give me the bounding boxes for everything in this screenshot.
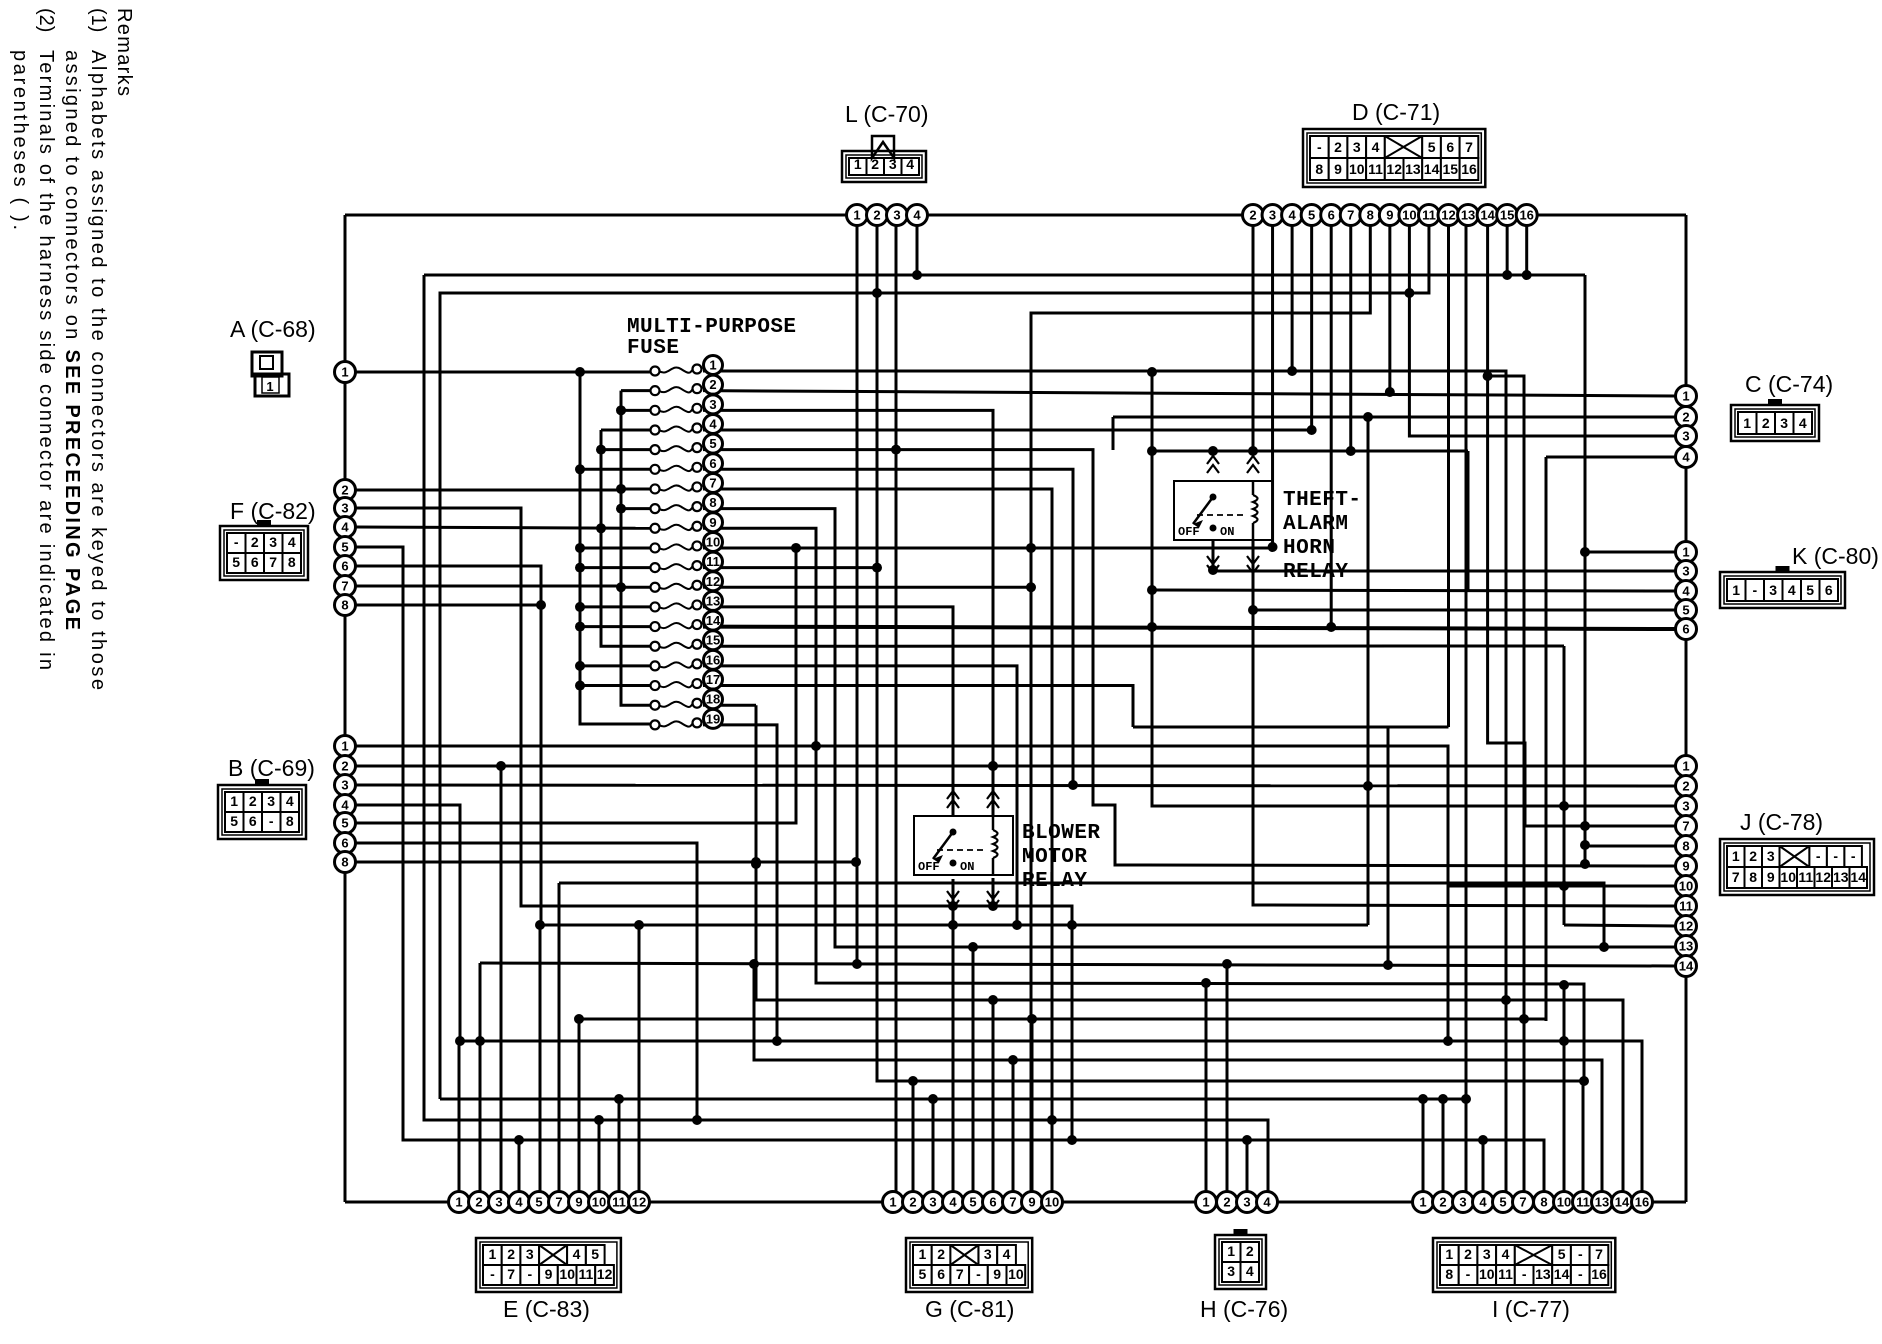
svg-text:8: 8: [1367, 208, 1374, 223]
wire D4 drop: [1291, 225, 1294, 371]
svg-text:Remarks: Remarks: [113, 8, 135, 96]
svg-text:14: 14: [706, 613, 721, 628]
pin C4: [1676, 447, 1697, 468]
wire D8 to G9 trunk: [1031, 225, 1370, 1202]
svg-text:17: 17: [706, 672, 720, 687]
pin J7: [1676, 816, 1697, 837]
svg-text:2: 2: [475, 1195, 482, 1210]
svg-text:13: 13: [1461, 208, 1475, 223]
wire F3 trunk to mega line: [356, 508, 1072, 925]
svg-text:1: 1: [709, 358, 716, 373]
connector H box: [1215, 1235, 1266, 1289]
svg-text:4: 4: [1288, 208, 1296, 223]
svg-text:1: 1: [455, 1195, 462, 1210]
svg-text:9: 9: [1682, 859, 1689, 874]
wire D10 drop to C3: [1409, 225, 1676, 436]
svg-text:5: 5: [341, 540, 348, 555]
svg-text:7: 7: [1347, 208, 1354, 223]
wire I2 riser: [1442, 1099, 1445, 1202]
svg-text:2: 2: [1334, 139, 1342, 155]
wire fuse9 out to H1 and beyond: [703, 528, 1584, 1081]
wire D5 drop: [1310, 225, 1313, 430]
svg-text:4: 4: [1682, 450, 1690, 465]
svg-text:1: 1: [489, 1246, 497, 1262]
pin C2: [1676, 407, 1697, 428]
pin D10: [1399, 205, 1420, 226]
wire L1 drop: [856, 225, 859, 964]
svg-text:9: 9: [993, 1266, 1001, 1282]
svg-text:-: -: [1816, 848, 1821, 864]
pin K3: [1676, 561, 1697, 582]
svg-text:5: 5: [969, 1195, 976, 1210]
svg-text:7: 7: [1682, 819, 1689, 834]
pin D14: [1477, 205, 1498, 226]
svg-text:11: 11: [706, 554, 720, 569]
svg-text:parentheses ( ).: parentheses ( ).: [9, 50, 31, 230]
wire G9 riser lower: [1031, 1019, 1034, 1202]
svg-text:RELAY: RELAY: [1283, 561, 1348, 584]
svg-text:BLOWER: BLOWER: [1022, 822, 1100, 845]
wire E7 riser: [558, 883, 561, 1202]
pin L2: [867, 205, 888, 226]
svg-text:2: 2: [341, 483, 348, 498]
pin B5: [335, 813, 356, 834]
text: remarks note (rotated): [9, 8, 135, 690]
svg-text:8: 8: [286, 813, 294, 829]
wire fuse11 out: [703, 566, 877, 569]
svg-text:Terminals of the harness side: Terminals of the harness side connector …: [35, 50, 57, 670]
svg-text:10: 10: [706, 534, 720, 549]
pin K5: [1676, 600, 1697, 621]
svg-text:6: 6: [937, 1266, 945, 1282]
fuse 8: [651, 504, 660, 513]
junction dots: [575, 367, 585, 377]
svg-text:8: 8: [1749, 869, 1757, 885]
svg-text:3: 3: [495, 1195, 502, 1210]
wire L4 drop: [916, 225, 919, 275]
svg-text:3: 3: [1682, 429, 1689, 444]
pin I11: [1573, 1192, 1594, 1213]
svg-text:OFF: OFF: [918, 860, 940, 874]
svg-text:3: 3: [1767, 848, 1775, 864]
wire stub fuse 10 input: [580, 546, 655, 549]
svg-text:2: 2: [251, 534, 259, 550]
svg-text:ON: ON: [1220, 525, 1234, 539]
svg-text:4: 4: [906, 156, 914, 172]
wire D16 drop: [1525, 225, 1528, 273]
wire L2 drop to G2/I11 trunk: [877, 225, 1583, 1202]
svg-text:1: 1: [1732, 848, 1740, 864]
wire fuse10 out: [703, 546, 1273, 549]
pin C1: [1676, 386, 1697, 407]
svg-text:8: 8: [288, 554, 296, 570]
pin J10: [1676, 876, 1697, 897]
wire F6 to J12 trunk: [356, 566, 1368, 925]
wire B4 to E1 / I16 trunk: [356, 805, 1642, 1202]
pin I10: [1554, 1192, 1575, 1213]
svg-text:Alphabets assigned to the conn: Alphabets assigned to the connectors are…: [87, 50, 109, 690]
pin J8: [1676, 836, 1697, 857]
svg-text:3: 3: [893, 208, 900, 223]
relay switch arm: [950, 829, 957, 836]
svg-text:MOTOR: MOTOR: [1022, 846, 1087, 869]
svg-text:6: 6: [1682, 622, 1689, 637]
wire I3 riser: [1465, 1099, 1468, 1202]
wire J14 line y=964: [480, 963, 1676, 966]
wire D15 drop: [1506, 225, 1509, 275]
svg-text:2: 2: [1246, 1243, 1254, 1259]
svg-text:1: 1: [341, 365, 348, 380]
wire fuse18 out: [703, 704, 756, 707]
svg-text:5: 5: [1428, 139, 1436, 155]
wire E12 riser: [638, 925, 641, 1202]
svg-text:(2): (2): [35, 8, 57, 32]
wire x=1585 column: [1584, 275, 1587, 866]
pin G2: [903, 1192, 924, 1213]
svg-text:10: 10: [1479, 1266, 1495, 1282]
svg-text:OFF: OFF: [1178, 525, 1200, 539]
fuse 18: [651, 701, 660, 710]
wire fuse3 out to blower coil: [703, 410, 993, 815]
wire A1 to fuse 1: [356, 371, 655, 374]
svg-text:13: 13: [1405, 161, 1421, 177]
svg-text:3: 3: [929, 1195, 936, 1210]
svg-text:5: 5: [535, 1195, 542, 1210]
svg-text:2: 2: [341, 759, 348, 774]
pin B1: [335, 736, 356, 757]
connector K box: [1720, 572, 1845, 608]
svg-text:7: 7: [709, 475, 716, 490]
fuse 4: [651, 425, 660, 434]
svg-text:5: 5: [1682, 603, 1689, 618]
wire G5 riser: [972, 947, 975, 1202]
pin H3: [1237, 1192, 1258, 1213]
svg-text:3: 3: [984, 1246, 992, 1262]
pin D7: [1340, 205, 1361, 226]
svg-text:12: 12: [597, 1266, 613, 1282]
wire stub fuse 5 input: [601, 448, 655, 451]
svg-text:D (C-71): D (C-71): [1352, 99, 1440, 125]
svg-text:4: 4: [1479, 1195, 1487, 1210]
svg-text:15: 15: [1443, 161, 1459, 177]
svg-text:1: 1: [1682, 389, 1689, 404]
svg-text:12: 12: [632, 1195, 646, 1210]
pin E5: [529, 1192, 550, 1213]
wire: main harness frame right edge: [1685, 215, 1688, 1202]
svg-text:2: 2: [1749, 848, 1757, 864]
wire fuse14 out to K6: [703, 627, 1676, 629]
svg-text:7: 7: [341, 579, 348, 594]
wire fuse16 out: [703, 666, 1017, 925]
pin K1: [1676, 542, 1697, 563]
connector C box: [1731, 405, 1819, 441]
wire I7 branch from D14: [1488, 376, 1524, 1202]
wire I3 line y=1099: [440, 1098, 1466, 1101]
svg-text:8: 8: [1445, 1266, 1453, 1282]
svg-text:11: 11: [612, 1195, 626, 1210]
pin A1: [335, 362, 356, 383]
svg-text:1: 1: [854, 156, 862, 172]
svg-text:2: 2: [1439, 1195, 1446, 1210]
wire theft switch common to K3: [1213, 540, 1676, 571]
svg-text:4: 4: [515, 1195, 523, 1210]
svg-text:E (C-83): E (C-83): [503, 1296, 590, 1322]
svg-text:4: 4: [1799, 415, 1807, 431]
svg-text:10: 10: [592, 1195, 606, 1210]
connector E box: [476, 1238, 621, 1292]
wire G3 riser: [932, 1099, 935, 1202]
svg-text:ON: ON: [960, 860, 974, 874]
pin L3: [887, 205, 908, 226]
wire: main harness frame top edge: [345, 214, 1686, 217]
fuse 1: [651, 367, 660, 376]
pin B6: [335, 833, 356, 854]
wire theft coil branch to J11: [1253, 610, 1676, 906]
svg-text:9: 9: [545, 1266, 553, 1282]
svg-text:13: 13: [1535, 1266, 1551, 1282]
svg-text:7: 7: [269, 554, 277, 570]
svg-text:2: 2: [873, 208, 880, 223]
svg-text:3: 3: [1682, 564, 1689, 579]
svg-text:5: 5: [1806, 582, 1814, 598]
svg-text:18: 18: [706, 692, 720, 707]
wire stub fuse 3 input: [621, 409, 655, 412]
wire D7 drop: [1349, 225, 1352, 451]
svg-text:1: 1: [1743, 415, 1751, 431]
svg-text:2: 2: [909, 1195, 916, 1210]
wire I1 riser: [1422, 1099, 1425, 1202]
pin E2: [469, 1192, 490, 1213]
wire bus x=601 vertical: [601, 430, 655, 646]
svg-text:10: 10: [1045, 1195, 1059, 1210]
wire x=424 drop to H4 line: [424, 275, 1268, 1202]
svg-text:THEFT-: THEFT-: [1283, 489, 1361, 512]
pin I1: [1413, 1192, 1434, 1213]
svg-text:12: 12: [1815, 869, 1831, 885]
svg-text:1: 1: [1445, 1246, 1453, 1262]
wire x=1113 stub: [1112, 417, 1115, 450]
fuse 13: [651, 602, 660, 611]
wire I11 riser: [1582, 1081, 1585, 1202]
pin D6: [1321, 205, 1342, 226]
wire E1 riser: [458, 1041, 461, 1202]
wire J12 stub: [1564, 925, 1676, 926]
pin F6: [335, 556, 356, 577]
svg-text:4: 4: [341, 520, 349, 535]
svg-text:A (C-68): A (C-68): [230, 316, 316, 342]
svg-text:3: 3: [341, 778, 348, 793]
svg-text:14: 14: [1554, 1266, 1570, 1282]
wire B1 column continues: [1447, 886, 1450, 1041]
pin J13: [1676, 936, 1697, 957]
wire G2 riser: [912, 1081, 915, 1202]
svg-text:10: 10: [1557, 1195, 1571, 1210]
pin E1: [449, 1192, 470, 1213]
svg-text:4: 4: [1682, 584, 1690, 599]
wire E5 riser: [539, 925, 542, 1202]
svg-text:-: -: [269, 813, 274, 829]
pin B2: [335, 756, 356, 777]
relay terminal arrows: [947, 800, 959, 808]
svg-text:16: 16: [1635, 1195, 1649, 1210]
svg-text:14: 14: [1480, 208, 1495, 223]
svg-text:6: 6: [1328, 208, 1335, 223]
svg-text:10: 10: [559, 1266, 575, 1282]
pin F7: [335, 576, 356, 597]
svg-text:12: 12: [706, 574, 720, 589]
svg-text:7: 7: [956, 1266, 964, 1282]
wire B3 to J2: [356, 785, 1676, 786]
svg-text:4: 4: [1788, 582, 1796, 598]
svg-text:9: 9: [1028, 1195, 1035, 1210]
wire B5 up to fuse10 line: [356, 548, 796, 823]
pin H1: [1196, 1192, 1217, 1213]
svg-text:2: 2: [937, 1246, 945, 1262]
svg-text:FUSE: FUSE: [627, 337, 679, 360]
wire E11 riser: [618, 1099, 621, 1202]
svg-text:4: 4: [709, 416, 717, 431]
svg-text:-: -: [1317, 139, 1322, 155]
wire fuse7 out to G10: [703, 489, 1052, 1202]
wire stub fuse 13 input: [580, 605, 655, 608]
pin D9: [1379, 205, 1400, 226]
connector F box: [220, 526, 308, 580]
svg-text:12: 12: [1679, 919, 1693, 934]
pin H4: [1257, 1192, 1278, 1213]
svg-text:1: 1: [341, 739, 348, 754]
svg-text:-: -: [1578, 1266, 1583, 1282]
svg-text:-: -: [1752, 582, 1757, 598]
svg-text:-: -: [976, 1266, 981, 1282]
svg-text:3: 3: [1483, 1246, 1491, 1262]
wire E9 net y=1019: [579, 1018, 1546, 1021]
svg-text:5: 5: [1558, 1246, 1566, 1262]
wire F5 to I8 trunk: [356, 547, 1544, 1202]
wire G6 riser: [992, 1000, 995, 1202]
wire E9 riser: [578, 1019, 581, 1202]
wire D11 trunk y=293: [440, 225, 1429, 1099]
svg-text:-: -: [490, 1266, 495, 1282]
svg-text:-: -: [1851, 848, 1856, 864]
svg-text:5: 5: [919, 1266, 927, 1282]
pin B4: [335, 795, 356, 816]
svg-text:L (C-70): L (C-70): [845, 101, 929, 127]
svg-text:3: 3: [341, 501, 348, 516]
svg-text:8: 8: [1682, 839, 1689, 854]
svg-text:14: 14: [1679, 959, 1694, 974]
svg-text:7: 7: [1009, 1195, 1016, 1210]
pin I14: [1612, 1192, 1633, 1213]
pin H2: [1217, 1192, 1238, 1213]
pin B3: [335, 775, 356, 796]
svg-text:8: 8: [709, 495, 716, 510]
pin D2: [1243, 205, 1264, 226]
svg-text:-: -: [1578, 1246, 1583, 1262]
pin I16: [1632, 1192, 1653, 1213]
pin F2: [335, 480, 356, 501]
svg-text:1: 1: [1227, 1243, 1235, 1259]
relay coil: [1253, 495, 1258, 523]
wire D3 drop: [1271, 225, 1274, 547]
wire D14 staircase to J7 junction: [1488, 225, 1585, 826]
svg-text:9: 9: [709, 515, 716, 530]
wire D6 drop: [1330, 225, 1333, 627]
connector I box: [1433, 1238, 1615, 1292]
svg-text:5: 5: [709, 436, 716, 451]
pin D12: [1438, 205, 1459, 226]
fuse 12: [651, 583, 660, 592]
svg-text:6: 6: [989, 1195, 996, 1210]
svg-text:13: 13: [1679, 939, 1693, 954]
svg-text:10: 10: [1402, 208, 1416, 223]
svg-text:HORN: HORN: [1283, 537, 1335, 560]
svg-text:RELAY: RELAY: [1022, 870, 1087, 893]
fuse 9: [651, 524, 660, 533]
svg-text:3: 3: [1269, 208, 1276, 223]
pin G7: [1003, 1192, 1024, 1213]
wire theft relay top net y=451: [1152, 450, 1468, 453]
svg-text:C (C-74): C (C-74): [1745, 371, 1833, 397]
THEFT- relay box: [1174, 481, 1273, 540]
svg-text:10: 10: [1008, 1266, 1024, 1282]
svg-text:8: 8: [1315, 161, 1323, 177]
pin E7: [549, 1192, 570, 1213]
pin G3: [923, 1192, 944, 1213]
wire C2/J2 link x=1368: [1367, 417, 1370, 925]
wire bus x=621 vertical fuses 2..18: [621, 389, 655, 392]
pin E11: [609, 1192, 630, 1213]
wire G7 riser: [1012, 1060, 1015, 1202]
pin D11: [1418, 205, 1439, 226]
connector G box: [906, 1238, 1032, 1292]
wire bus x=621 down: [621, 391, 655, 706]
svg-text:3: 3: [269, 534, 277, 550]
wire F7 to fuse bus: [356, 585, 621, 588]
svg-text:3: 3: [1353, 139, 1361, 155]
svg-text:7: 7: [1595, 1246, 1603, 1262]
svg-text:4: 4: [288, 534, 296, 550]
relay switch arm: [1210, 494, 1217, 501]
svg-text:5: 5: [232, 554, 240, 570]
connector L box: [842, 151, 926, 182]
svg-text:ALARM: ALARM: [1283, 513, 1348, 536]
wire D13 drop through to I3: [1465, 225, 1468, 1099]
svg-text:11: 11: [578, 1266, 593, 1282]
svg-text:4: 4: [573, 1246, 581, 1262]
wire C4 column down: [1545, 457, 1548, 1021]
svg-text:MULTI-PURPOSE: MULTI-PURPOSE: [627, 316, 796, 339]
svg-text:2: 2: [1682, 410, 1689, 425]
pin L4: [907, 205, 928, 226]
fuse 5: [651, 445, 660, 454]
pin D13: [1458, 205, 1479, 226]
svg-text:4: 4: [1003, 1246, 1011, 1262]
svg-text:3: 3: [1227, 1263, 1235, 1279]
connector A icon: [252, 352, 282, 376]
pin D16: [1516, 205, 1537, 226]
wire theft coil to K5 and J11: [1253, 540, 1676, 610]
svg-text:1: 1: [889, 1195, 896, 1210]
svg-text:11: 11: [1422, 208, 1436, 223]
wire x=1072 drop: [1071, 925, 1074, 1140]
wire I4 riser: [1482, 1140, 1485, 1202]
fuse 7: [651, 484, 660, 493]
svg-text:5: 5: [230, 813, 238, 829]
wire stub fuse 17 input: [580, 684, 655, 687]
wire J8 stub: [1585, 845, 1676, 848]
pin G1: [883, 1192, 904, 1213]
wire J7 stub: [1585, 825, 1676, 828]
